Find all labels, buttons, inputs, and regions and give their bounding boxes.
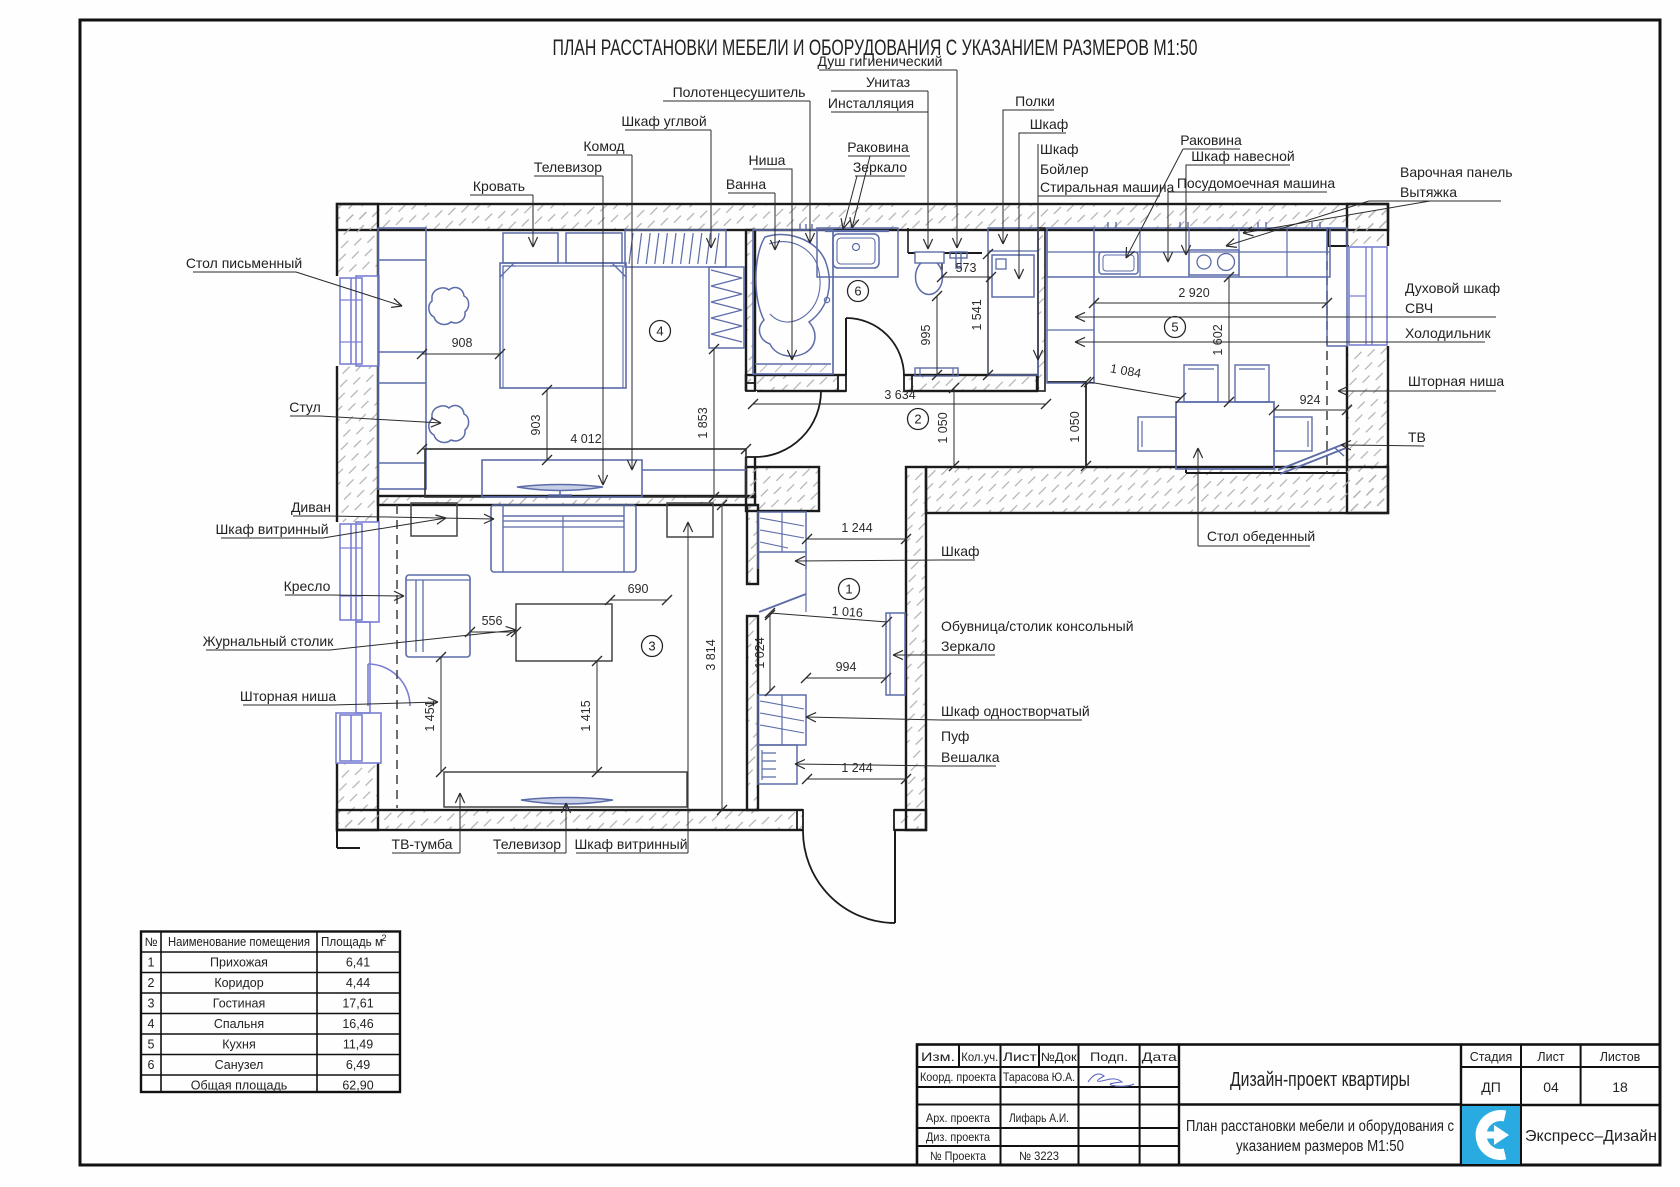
bedroom dresser unit outline: [425, 449, 746, 497]
svg-text:Шкаф: Шкаф: [1040, 141, 1079, 157]
svg-text:1 016: 1 016: [831, 604, 863, 620]
svg-text:18: 18: [1612, 1079, 1628, 1095]
svg-text:Холодильник: Холодильник: [1405, 325, 1491, 341]
svg-text:1 602: 1 602: [1211, 324, 1225, 355]
title block right: [1520, 1045, 1522, 1166]
svg-text:Шкаф одностворчатый: Шкаф одностворчатый: [941, 703, 1090, 719]
kitchen left tall units: [1047, 228, 1094, 383]
bathroom/kitchen partition wall: [1038, 228, 1045, 391]
chair 1: [429, 288, 469, 325]
svg-text:Духовой шкаф: Духовой шкаф: [1405, 280, 1500, 296]
svg-text:Кресло: Кресло: [284, 578, 331, 594]
toilet: [916, 260, 943, 295]
TV bedroom: [517, 485, 603, 491]
dim 924: [1274, 409, 1347, 411]
towel rail near toilet: [915, 368, 958, 376]
svg-text:Пуф: Пуф: [941, 728, 969, 744]
display cabinet left: [411, 503, 457, 536]
svg-text:Варочная панель: Варочная панель: [1400, 164, 1513, 180]
svg-text:6,41: 6,41: [346, 956, 370, 970]
svg-text:11,49: 11,49: [343, 1038, 373, 1052]
hallway top-left wall block: [746, 467, 819, 511]
svg-text:6: 6: [148, 1058, 155, 1072]
dim 2920: [1094, 302, 1327, 304]
dim 3634: [753, 403, 1046, 405]
display cabinet right: [667, 503, 713, 537]
svg-text:Ванна: Ванна: [726, 176, 767, 192]
TV living room: [521, 798, 613, 805]
svg-text:4,44: 4,44: [346, 976, 370, 990]
svg-text:4 012: 4 012: [570, 432, 601, 446]
coffee table: [516, 604, 612, 661]
svg-text:908: 908: [452, 336, 473, 350]
svg-text:995: 995: [919, 325, 933, 346]
svg-text:Зеркало: Зеркало: [853, 159, 908, 175]
dim 1451: [440, 657, 442, 772]
svg-text:План расстановки мебели и обор: План расстановки мебели и оборудования с: [1186, 1118, 1454, 1135]
svg-text:924: 924: [1300, 393, 1321, 407]
dresser (комод): [482, 460, 642, 497]
svg-text:Стол обеденный: Стол обеденный: [1207, 528, 1315, 544]
dining table: [1176, 402, 1274, 469]
bed: [500, 263, 626, 388]
hygienic shower symbol: [950, 252, 967, 258]
svg-text:2: 2: [148, 976, 155, 990]
living room window 1: [340, 524, 362, 620]
svg-text:Кухня: Кухня: [222, 1038, 255, 1052]
svg-text:903: 903: [529, 415, 543, 436]
svg-text:Коорд. проекта: Коорд. проекта: [920, 1070, 996, 1084]
corner bath: [753, 230, 833, 374]
svg-text:Шкаф: Шкаф: [1030, 116, 1069, 132]
svg-text:1 024: 1 024: [753, 637, 767, 668]
room number 1: [839, 579, 860, 600]
svg-text:Шторная ниша: Шторная ниша: [1408, 373, 1504, 389]
dim 908: [422, 353, 500, 355]
single-door wardrobe: [758, 695, 806, 745]
svg-text:4: 4: [148, 1017, 155, 1031]
svg-text:СВЧ: СВЧ: [1405, 300, 1433, 316]
svg-text:Телевизор: Телевизор: [493, 836, 561, 852]
svg-text:1 415: 1 415: [579, 700, 593, 731]
svg-text:Шкаф витринный: Шкаф витринный: [574, 836, 687, 852]
svg-text:3: 3: [648, 639, 655, 654]
svg-text:Экспресс–Дизайн: Экспресс–Дизайн: [1525, 1128, 1657, 1145]
sink: [833, 234, 879, 268]
svg-text:Ниша: Ниша: [749, 152, 786, 168]
corner wardrobe rail: [625, 230, 726, 267]
svg-text:4: 4: [656, 324, 663, 339]
dim 690: [610, 599, 667, 601]
sofa: [491, 505, 636, 572]
title block: [917, 1045, 1660, 1166]
living/hallway partition wall lower: [747, 616, 758, 810]
dim 573: [942, 276, 991, 278]
title block middle: [1460, 1045, 1462, 1166]
svg-text:Посудомоечная машина: Посудомоечная машина: [1177, 175, 1336, 191]
svg-text:Полотенцесушитель: Полотенцесушитель: [673, 84, 806, 100]
outer wall right (kitchen side): [1347, 204, 1388, 513]
svg-text:Шкаф навесной: Шкаф навесной: [1191, 148, 1294, 164]
svg-text:6,49: 6,49: [346, 1058, 370, 1072]
svg-text:1 244: 1 244: [841, 521, 872, 535]
toilet niche partition: [908, 252, 982, 254]
curtain niche dashed line living room: [396, 505, 398, 808]
wall below kitchen / dining: [926, 467, 1388, 513]
svg-text:2: 2: [381, 933, 386, 943]
svg-text:5: 5: [148, 1038, 155, 1052]
svg-text:994: 994: [836, 660, 857, 674]
svg-text:3: 3: [148, 997, 155, 1011]
dining nook floor line: [1186, 472, 1347, 474]
svg-text:Стадия: Стадия: [1470, 1050, 1513, 1064]
kitchen right tall unit: [1327, 228, 1347, 346]
dining chair top-right: [1235, 365, 1269, 402]
bedroom/living partition wall: [378, 496, 755, 505]
svg-text:Кровать: Кровать: [473, 178, 525, 194]
dining chair left: [1138, 417, 1176, 451]
svg-text:573: 573: [956, 261, 977, 275]
door jambs corridor-bedroom: [746, 383, 755, 391]
svg-text:Унитаз: Унитаз: [866, 74, 910, 90]
svg-text:556: 556: [482, 614, 503, 628]
svg-text:Листов: Листов: [1600, 1050, 1641, 1064]
living/hallway partition wall upper: [747, 505, 758, 584]
svg-text:1 244: 1 244: [841, 761, 872, 775]
svg-text:Кол.уч.: Кол.уч.: [961, 1050, 998, 1064]
svg-text:ТВ: ТВ: [1408, 429, 1426, 445]
svg-text:1: 1: [148, 956, 155, 970]
dim 1050 b: [1085, 382, 1087, 466]
svg-text:Общая площадь: Общая площадь: [191, 1079, 288, 1093]
svg-text:Зеркало: Зеркало: [941, 638, 996, 654]
svg-text:1 541: 1 541: [970, 299, 984, 330]
svg-text:Стиральная машина: Стиральная машина: [1040, 179, 1175, 195]
svg-text:2 920: 2 920: [1178, 286, 1209, 300]
dim 3814: [721, 505, 723, 810]
svg-text:16,46: 16,46: [342, 1017, 373, 1031]
svg-text:1 050: 1 050: [1068, 411, 1082, 442]
bedroom right wall: [746, 230, 755, 497]
hallway right wall: [906, 467, 926, 830]
corner wardrobe shelves column: [709, 267, 744, 348]
dim 1541: [987, 254, 989, 375]
svg-text:Телевизор: Телевизор: [534, 159, 602, 175]
mirror: [825, 230, 889, 232]
logo: [1462, 1106, 1520, 1164]
svg-text:Гостиная: Гостиная: [213, 997, 265, 1011]
svg-text:3 814: 3 814: [704, 639, 718, 670]
svg-text:1 853: 1 853: [696, 407, 710, 438]
dining chair top-left: [1184, 365, 1218, 402]
pouf + hanger: [758, 745, 797, 784]
svg-text:Шторная ниша: Шторная ниша: [240, 688, 336, 704]
svg-text:Диз. проекта: Диз. проекта: [926, 1130, 990, 1144]
svg-text:Санузел: Санузел: [215, 1058, 264, 1072]
built-in oven/fridge column: [1349, 247, 1387, 345]
kitchen sink: [1099, 252, 1138, 274]
bathroom bottom wall: [746, 375, 1037, 391]
balcony door arc: [368, 664, 410, 706]
room number 4: [650, 321, 671, 342]
svg-text:6: 6: [854, 284, 861, 299]
dim 903: [546, 390, 548, 460]
svg-text:Лист: Лист: [1003, 1050, 1038, 1064]
bedroom window: [340, 278, 362, 364]
svg-text:Спальня: Спальня: [214, 1017, 264, 1031]
door jambs entry: [797, 810, 803, 830]
shelf niche (polki): [988, 228, 1038, 375]
svg-text:1: 1: [845, 582, 852, 597]
svg-text:Душ гигиенический: Душ гигиенический: [818, 53, 943, 69]
svg-text:2: 2: [914, 412, 921, 427]
svg-text:Диван: Диван: [291, 499, 331, 515]
bath inner curve: [769, 242, 820, 322]
towel ticks: [799, 224, 801, 230]
svg-text:Прихожая: Прихожая: [210, 956, 268, 970]
door jambs bathroom: [838, 375, 846, 391]
left wall foot: [336, 830, 338, 848]
svg-text:Шкаф углвой: Шкаф углвой: [621, 113, 706, 129]
dim 995: [936, 296, 938, 375]
svg-text:Шкаф витринный: Шкаф витринный: [215, 521, 328, 537]
svg-text:Коридор: Коридор: [214, 976, 263, 990]
washing machine: [992, 255, 1034, 297]
dim 1602: [1228, 277, 1230, 402]
svg-text:690: 690: [628, 582, 649, 596]
signature squiggle: [1088, 1074, 1134, 1086]
TV dining diagonal: [1278, 444, 1344, 470]
svg-text:Бойлер: Бойлер: [1040, 161, 1089, 177]
room number 5: [1165, 317, 1186, 338]
pillow left: [503, 233, 558, 263]
svg-text:Обувница/столик консольный: Обувница/столик консольный: [941, 618, 1134, 634]
dining chair right: [1274, 417, 1312, 451]
svg-text:Тарасова Ю.А.: Тарасова Ю.А.: [1003, 1070, 1075, 1084]
room number 2: [908, 409, 929, 430]
svg-text:Вытяжка: Вытяжка: [1400, 184, 1457, 200]
hall wardrobe top: [758, 512, 806, 552]
svg-text:Вешалка: Вешалка: [941, 749, 1000, 765]
dim 1084 sloped: [1089, 382, 1181, 398]
bathroom door arc: [845, 318, 847, 375]
entry door arc: [894, 830, 896, 923]
svg-text:Стул: Стул: [289, 399, 321, 415]
kitchen-corridor step lines: [1047, 381, 1086, 383]
dim 1853: [713, 349, 715, 497]
svg-text:Раковина: Раковина: [1180, 132, 1242, 148]
outer wall top: [337, 204, 1388, 230]
svg-text:№ Проекта: № Проекта: [930, 1149, 986, 1163]
svg-text:Шкаф: Шкаф: [941, 543, 980, 559]
dim 1050 a: [953, 388, 955, 466]
svg-text:Лист: Лист: [1537, 1050, 1564, 1064]
dim 1016: [770, 613, 887, 622]
svg-text:1 451: 1 451: [423, 700, 437, 731]
curtain niche dashed line dining: [1326, 246, 1328, 473]
svg-text:Дизайн-проект квартиры: Дизайн-проект квартиры: [1230, 1069, 1410, 1091]
desk (стол письменный): [378, 228, 426, 489]
kitchen counter top row: [1047, 228, 1330, 277]
svg-text:04: 04: [1543, 1079, 1559, 1095]
svg-text:ТВ-тумба: ТВ-тумба: [392, 836, 453, 852]
dim 556: [470, 631, 516, 633]
svg-text:ДП: ДП: [1481, 1079, 1501, 1095]
counter handle ticks: [1107, 222, 1109, 228]
svg-text:Подп.: Подп.: [1090, 1050, 1128, 1064]
outer wall left: [337, 204, 378, 830]
svg-text:Лифарь А.И.: Лифарь А.И.: [1009, 1111, 1069, 1125]
svg-text:3 634: 3 634: [884, 388, 915, 402]
svg-text:5: 5: [1171, 320, 1178, 335]
dim 1415: [596, 661, 598, 772]
bedroom-corridor door arc: [755, 391, 821, 457]
pillow right: [566, 233, 622, 263]
svg-text:Изм.: Изм.: [921, 1050, 955, 1064]
outer wall bottom (living room + hallway): [337, 810, 926, 830]
dim 4012: [422, 448, 746, 450]
svg-text:Наименование помещения: Наименование помещения: [168, 935, 310, 949]
dim 1024: [769, 615, 771, 691]
kitchen niche corner: [1327, 228, 1329, 246]
svg-text:№ 3223: № 3223: [1019, 1149, 1059, 1163]
armchair: [406, 575, 470, 657]
chair 2: [429, 406, 469, 443]
dim 1244 bottom: [807, 778, 906, 780]
dim 994: [806, 677, 886, 679]
balcony door frame: [356, 622, 370, 713]
svg-text:Комод: Комод: [583, 138, 624, 154]
svg-text:Журнальный столик: Журнальный столик: [203, 633, 335, 649]
bath area small shelf: [832, 230, 834, 374]
svg-text:Площадь м: Площадь м: [321, 935, 383, 949]
svg-text:Полки: Полки: [1015, 93, 1055, 109]
svg-text:Арх. проекта: Арх. проекта: [926, 1111, 990, 1125]
svg-text:Раковина: Раковина: [847, 139, 909, 155]
svg-text:17,61: 17,61: [342, 997, 373, 1011]
svg-text:Дата: Дата: [1142, 1050, 1177, 1064]
tv stand: [444, 772, 687, 807]
room number 3: [642, 636, 663, 657]
svg-text:указанием размеров М1:50: указанием размеров М1:50: [1236, 1138, 1404, 1155]
svg-text:1 050: 1 050: [936, 412, 950, 443]
svg-text:62,90: 62,90: [342, 1079, 373, 1093]
wash basin cabinet: [817, 228, 898, 277]
living room window 2: [340, 715, 362, 761]
room areas table: [141, 932, 400, 1093]
room number 6: [848, 281, 869, 302]
svg-text:Стол письменный: Стол письменный: [186, 255, 302, 271]
svg-text:Инсталляция: Инсталляция: [828, 95, 914, 111]
svg-text:№Док: №Док: [1041, 1050, 1078, 1064]
hob: [1189, 250, 1239, 275]
shoe cabinet / console: [886, 613, 905, 695]
svg-text:№: №: [145, 935, 158, 949]
hall sloped line: [759, 594, 806, 612]
dim 1244 top: [807, 538, 906, 540]
